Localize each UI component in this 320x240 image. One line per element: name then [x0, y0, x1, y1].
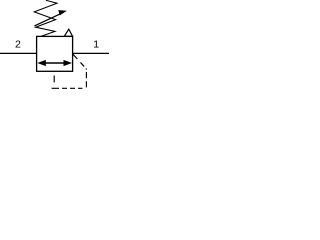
svg-text:1: 1 [93, 39, 99, 51]
pilot line right vertical segment (dashed) [85, 69, 87, 88]
flow path double-headed arrow [37, 60, 72, 66]
pilot line bottom horizontal segment (dashed) [52, 87, 87, 89]
adjustment arrow head [58, 10, 67, 15]
spring (zigzag) [34, 0, 57, 36]
svg-text:2: 2 [15, 39, 21, 51]
adjustment arrow shaft [34, 13, 61, 26]
valve seat triangle on top edge [64, 29, 72, 36]
pilot line diagonal segment (dashed) [73, 54, 86, 69]
pilot line left vertical segment up to valve bottom (dashed) [53, 72, 55, 88]
port 1 line (right) [73, 52, 109, 54]
valve body box [37, 36, 73, 71]
port 2 line (left) [0, 52, 37, 54]
